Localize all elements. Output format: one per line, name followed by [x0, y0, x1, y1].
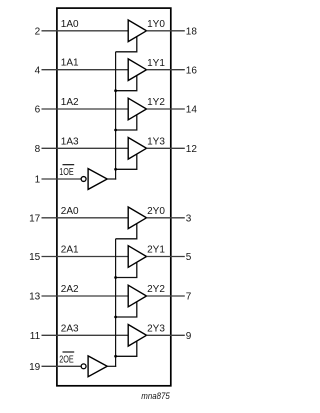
wire buffer U21 output to pin 5 (2Y1) [147, 256, 185, 258]
svg-text:13: 13 [29, 292, 41, 303]
svg-text:14: 14 [186, 105, 198, 116]
svg-text:2: 2 [35, 27, 41, 38]
svg-text:1Y2: 1Y2 [147, 97, 165, 108]
wire pin 17 input (2A0) [42, 217, 129, 219]
wire pin 6 input (1A2) [42, 108, 129, 110]
svg-text:15: 15 [29, 252, 41, 263]
svg-text:2Y3: 2Y3 [147, 324, 165, 335]
svg-text:16: 16 [186, 65, 198, 76]
wire buffer U22 output to pin 7 (2Y2) [147, 295, 185, 297]
svg-text:5: 5 [186, 252, 192, 263]
svg-text:1: 1 [35, 175, 41, 186]
junction dot OE bus 1 / buffer U11 enable [114, 89, 117, 92]
svg-text:1Y1: 1Y1 [147, 58, 165, 69]
wire pin 13 input (2A2) [42, 295, 129, 297]
buffer U22 (2A2 to 2Y2) [128, 285, 146, 307]
wire OE bus 1 vertical [115, 52, 117, 180]
svg-text:2A0: 2A0 [61, 206, 79, 217]
svg-text:7: 7 [186, 292, 192, 303]
svg-text:1A1: 1A1 [61, 58, 79, 69]
svg-text:19: 19 [29, 362, 41, 373]
buffer U23 (2A3 to 2Y3) [128, 325, 146, 347]
buffer U21 (2A1 to 2Y1) [128, 246, 146, 268]
buffer U13 (1A3 to 1Y3) [128, 138, 146, 160]
wire pin 1 input (1OE) [42, 178, 82, 180]
wire enable of buffer U13 to OE bus [116, 154, 137, 169]
inverter U1E triangle [88, 169, 107, 190]
wire pin 11 input (2A3) [42, 334, 129, 336]
wire buffer U23 output to pin 9 (2Y3) [147, 334, 185, 336]
junction dot OE bus 2 / buffer U21 enable [114, 276, 117, 279]
wire enable of buffer U10 to OE bus [116, 36, 137, 51]
svg-text:1A2: 1A2 [61, 97, 79, 108]
wire inverter U1E output [107, 178, 116, 180]
svg-text:2Y2: 2Y2 [147, 284, 165, 295]
svg-text:2Y0: 2Y0 [147, 206, 165, 217]
node 2OE label (active-low overline) [59, 352, 74, 365]
svg-text:4: 4 [35, 65, 41, 76]
wire enable of buffer U22 to OE bus [116, 302, 137, 317]
wire enable of buffer U21 to OE bus [116, 262, 137, 277]
svg-text:2A3: 2A3 [61, 323, 79, 334]
svg-text:2A1: 2A1 [61, 245, 79, 256]
wire buffer U10 output to pin 18 (1Y0) [147, 30, 185, 32]
node 1OE label (active-low overline) [59, 165, 74, 178]
svg-text:17: 17 [29, 214, 41, 225]
junction dot OE bus 1 / buffer U12 enable [114, 129, 117, 132]
svg-text:6: 6 [35, 105, 41, 116]
wire buffer U13 output to pin 12 (1Y3) [147, 147, 185, 149]
inverter U1E input bubble [81, 177, 86, 182]
svg-text:2A2: 2A2 [61, 284, 79, 295]
buffer U12 (1A2 to 1Y2) [128, 98, 146, 120]
svg-text:1A0: 1A0 [61, 19, 79, 30]
svg-text:1Y0: 1Y0 [147, 19, 165, 30]
svg-text:9: 9 [186, 331, 192, 342]
wire pin 2 input (1A0) [42, 30, 129, 32]
IC outline box [57, 8, 171, 386]
junction dot OE bus 1 / buffer U13 enable [114, 168, 117, 171]
buffer U20 (2A0 to 2Y0) [128, 207, 146, 229]
wire pin 8 input (1A3) [42, 147, 129, 149]
buffer U10 (1A0 to 1Y0) [128, 20, 146, 42]
wire OE bus 2 vertical [115, 239, 117, 367]
wire enable of buffer U12 to OE bus [116, 115, 137, 130]
inverter U2E input bubble [81, 364, 86, 369]
svg-text:mna875: mna875 [141, 391, 170, 401]
wire enable of buffer U20 to OE bus [116, 223, 137, 238]
svg-text:2Y1: 2Y1 [147, 245, 165, 256]
wire pin 19 input (2OE) [42, 365, 82, 367]
wire pin 4 input (1A1) [42, 69, 129, 71]
wire enable of buffer U11 to OE bus [116, 75, 137, 90]
wire buffer U20 output to pin 3 (2Y0) [147, 217, 185, 219]
svg-text:3: 3 [186, 214, 192, 225]
svg-text:1OE: 1OE [59, 167, 74, 178]
svg-text:8: 8 [35, 144, 41, 155]
wire enable of buffer U23 to OE bus [116, 341, 137, 356]
inverter U2E triangle [88, 356, 107, 377]
junction dot OE bus 2 / buffer U23 enable [114, 355, 117, 358]
wire inverter U2E output [107, 365, 116, 367]
svg-text:12: 12 [186, 144, 198, 155]
buffer U11 (1A1 to 1Y1) [128, 59, 146, 81]
svg-text:1Y3: 1Y3 [147, 137, 165, 148]
svg-text:18: 18 [186, 27, 198, 38]
wire buffer U11 output to pin 16 (1Y1) [147, 69, 185, 71]
wire pin 15 input (2A1) [42, 256, 129, 258]
junction dot OE bus 2 / buffer U22 enable [114, 316, 117, 319]
svg-text:1A3: 1A3 [61, 136, 79, 147]
wire buffer U12 output to pin 14 (1Y2) [147, 108, 185, 110]
svg-text:11: 11 [30, 331, 41, 342]
svg-text:2OE: 2OE [59, 354, 74, 365]
